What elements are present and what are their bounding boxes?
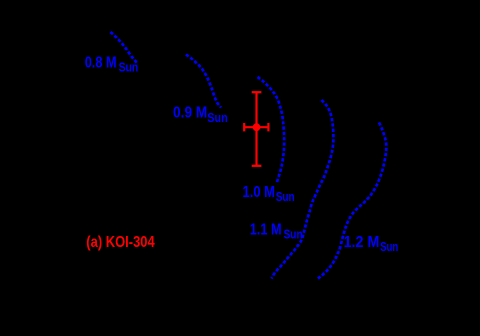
track 0.9 Msun (blue dashed evolution track) [186, 55, 221, 108]
label 1.0 Msun [243, 184, 295, 204]
svg-text:Sun: Sun [284, 226, 303, 241]
svg-text:0.8 M: 0.8 M [85, 55, 117, 72]
label 0.8 Msun [85, 55, 139, 75]
svg-text:(a) KOI-304: (a) KOI-304 [86, 234, 154, 251]
svg-text:Sun: Sun [119, 60, 139, 75]
svg-text:1.2 M: 1.2 M [344, 234, 380, 251]
track 1.0 Msun (blue dashed evolution track) [258, 77, 285, 184]
svg-text:Sun: Sun [380, 239, 398, 254]
track 0.8 Msun (blue dashed evolution track) [111, 32, 138, 64]
svg-text:Sun: Sun [276, 189, 295, 204]
bottom cap [252, 165, 262, 167]
central data point marker [253, 123, 261, 131]
right cap [267, 123, 269, 131]
svg-text:1.1 M: 1.1 M [250, 221, 282, 238]
svg-text:0.9 M: 0.9 M [173, 105, 207, 122]
track 1.2 Msun (blue dashed evolution track) [318, 123, 386, 279]
vertical error bar line [255, 92, 257, 166]
track 1.1 Msun (blue dashed evolution track) [272, 100, 334, 279]
label 1.2 Msun [344, 234, 399, 254]
left cap [243, 123, 245, 131]
svg-text:Sun: Sun [207, 110, 227, 125]
data point error bar (red), KOI-304 measurement [244, 92, 268, 166]
horizontal error bar line [244, 126, 268, 128]
top cap [252, 91, 262, 93]
label 0.9 Msun [173, 105, 228, 125]
svg-text:1.0 M: 1.0 M [243, 184, 276, 201]
label 1.1 Msun [250, 221, 303, 241]
